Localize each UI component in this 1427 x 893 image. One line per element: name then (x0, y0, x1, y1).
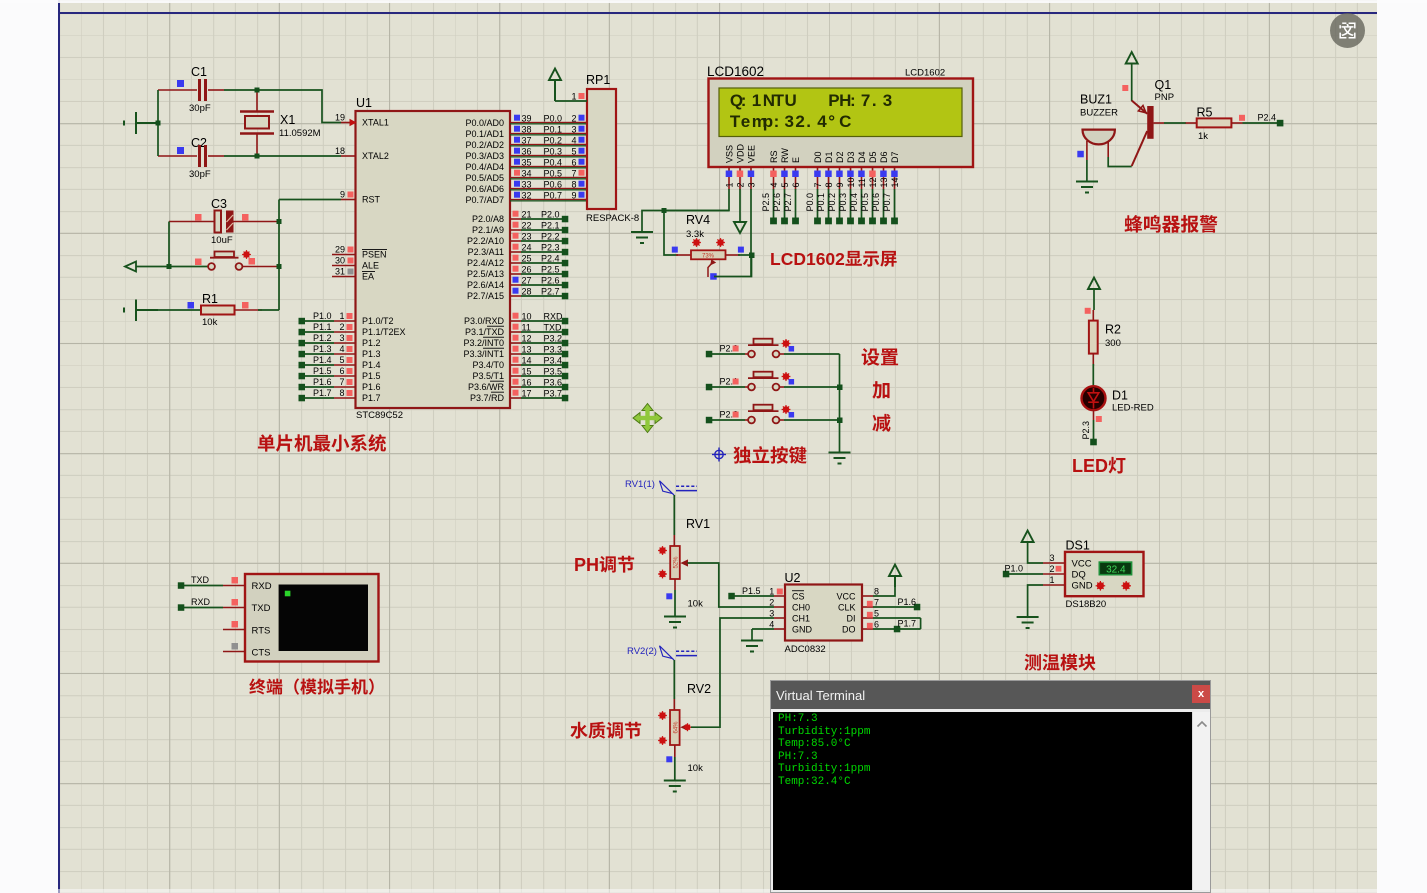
svg-text:D1: D1 (824, 151, 834, 163)
node X1 bottom junction (255, 154, 260, 159)
buzzer BUZ1 (1077, 93, 1118, 161)
svg-text:P0.2/AD2: P0.2/AD2 (465, 140, 504, 150)
svg-text:GND: GND (1072, 581, 1093, 592)
svg-text:10k: 10k (202, 317, 218, 328)
svg-text:P2.5: P2.5 (761, 193, 771, 212)
net P3.5 wire (510, 367, 568, 380)
svg-text:RV4: RV4 (686, 213, 710, 227)
svg-text:D5: D5 (868, 151, 878, 163)
svg-text:RV1(1): RV1(1) (625, 479, 655, 490)
svg-text:P3.7/RD: P3.7/RD (470, 393, 505, 403)
ground (R1) (124, 300, 158, 322)
power terminal (DS1) (1022, 531, 1034, 543)
svg-text:D2: D2 (835, 151, 845, 163)
svg-text:VCC: VCC (1072, 559, 1092, 570)
wire D1 to terminal P2.3 (1081, 420, 1097, 445)
svg-text:P0.2: P0.2 (544, 136, 563, 146)
svg-text:34: 34 (522, 169, 532, 179)
svg-text:Temp:32.4°C: Temp:32.4°C (730, 112, 851, 131)
LCD pin 11 D4 (849, 167, 867, 224)
phone pin CTS stub (223, 643, 245, 652)
svg-text:P1.7: P1.7 (313, 388, 332, 398)
U1 pin 18 XTAL2 (335, 146, 356, 156)
svg-text:CLK: CLK (838, 602, 856, 612)
svg-text:P0.4/AD4: P0.4/AD4 (465, 162, 504, 172)
power terminal (RP1) (549, 69, 561, 102)
IC U1 STC89C52 body (356, 96, 511, 421)
push button (reset) (195, 250, 279, 270)
svg-text:DQ: DQ (1072, 570, 1086, 581)
svg-text:D1: D1 (1112, 389, 1128, 403)
svg-text:P2.7: P2.7 (783, 193, 793, 212)
net P0.1 wire U1-RP1 (510, 125, 587, 135)
svg-text:P2.3: P2.3 (1081, 421, 1091, 440)
svg-text:D4: D4 (857, 151, 867, 163)
svg-text:33: 33 (522, 180, 532, 190)
svg-text:52%: 52% (674, 556, 680, 569)
svg-text:DS1: DS1 (1066, 539, 1090, 553)
svg-text:P2.6: P2.6 (772, 193, 782, 212)
potentiometer RV2 10k (658, 682, 711, 774)
LCD pin 4 RS (761, 167, 779, 224)
svg-text:P1.0/T2: P1.0/T2 (362, 316, 394, 326)
svg-text:LCD1602: LCD1602 (770, 249, 845, 269)
svg-text:P2.7: P2.7 (541, 287, 560, 297)
svg-text:14: 14 (890, 177, 900, 187)
svg-text:R2: R2 (1105, 323, 1121, 337)
node button-right junction (277, 264, 282, 269)
LCD pin 10 D3 (838, 167, 856, 224)
LCD pin 5 RW (772, 167, 790, 224)
LCD pin 6 E (783, 167, 801, 224)
svg-text:CH1: CH1 (792, 613, 810, 623)
U1 pin 9 RST (340, 190, 356, 200)
svg-text:RXD: RXD (191, 597, 211, 607)
svg-text:P2.1/A9: P2.1/A9 (472, 225, 504, 235)
wire buzzer right to Q1 collector (1108, 157, 1132, 167)
wire C3 left drop (168, 222, 170, 267)
ground (U2) (741, 641, 763, 652)
svg-text:BUZ1: BUZ1 (1080, 93, 1112, 107)
phone pin RXD wire TXD (178, 575, 245, 589)
svg-text:3.3k: 3.3k (686, 229, 704, 240)
svg-text:1: 1 (724, 182, 734, 187)
ground (crystal) (124, 112, 158, 134)
svg-text:7: 7 (571, 169, 576, 179)
U1 pin 6 P1.5 wire (299, 366, 356, 380)
node bus junction 1 (837, 385, 843, 391)
svg-text:RV2(2): RV2(2) (627, 646, 657, 657)
LCD LCD1 LCD1602 body (707, 64, 973, 167)
svg-text:Q1: Q1 (1155, 78, 1172, 92)
svg-text:RESPACK-8: RESPACK-8 (586, 213, 639, 224)
LCD pin 3 VEE (746, 167, 756, 277)
U1 pin 3 P1.2 wire (299, 333, 356, 347)
svg-text:3: 3 (339, 333, 344, 343)
svg-text:30pF: 30pF (189, 103, 211, 114)
svg-text:P1.1/T2EX: P1.1/T2EX (362, 327, 406, 337)
svg-text:P1.6: P1.6 (898, 597, 917, 607)
svg-text:P0.1/AD1: P0.1/AD1 (465, 129, 504, 139)
label 独立按键 (733, 446, 806, 464)
pan cursor icon (633, 404, 662, 433)
svg-text:TXD: TXD (544, 323, 563, 333)
svg-text:P0.0/AD0: P0.0/AD0 (465, 118, 504, 128)
svg-text:16: 16 (522, 378, 532, 388)
label 设置 (862, 348, 898, 366)
svg-text:8: 8 (339, 388, 344, 398)
svg-text:U1: U1 (356, 96, 372, 110)
svg-text:5: 5 (780, 182, 790, 187)
svg-text:9: 9 (571, 191, 576, 201)
svg-text:21: 21 (522, 210, 532, 220)
svg-text:R5: R5 (1197, 106, 1213, 120)
svg-text:VDD: VDD (735, 143, 745, 163)
svg-text:P3.0/RXD: P3.0/RXD (464, 316, 505, 326)
RV4 wiper wire (714, 255, 752, 277)
svg-text:P0.3: P0.3 (544, 147, 563, 157)
net P0.2 wire U1-RP1 (510, 136, 587, 146)
svg-text:P0.6: P0.6 (871, 193, 881, 212)
marker origin (blue target) (712, 448, 726, 462)
DS1 pin 2 DQ wire P1.0 (1003, 564, 1065, 578)
svg-text:P0.7: P0.7 (882, 193, 892, 212)
svg-text:14: 14 (522, 356, 532, 366)
svg-text:P0.0: P0.0 (805, 193, 815, 212)
svg-text:3: 3 (1049, 553, 1054, 563)
IC U2 ADC0832 body (785, 571, 863, 655)
svg-text:11: 11 (857, 178, 867, 187)
U2 pin 6 DO wire P1.7 (862, 618, 921, 632)
svg-text:P1.7: P1.7 (362, 393, 381, 403)
wire RV2 bottom to ground (674, 757, 676, 780)
svg-text:LED-RED: LED-RED (1112, 403, 1154, 414)
svg-text:32: 32 (522, 191, 532, 201)
window Virtual Terminal (770, 680, 1211, 893)
svg-text:P3.6: P3.6 (544, 378, 563, 388)
DS1 pin 3 VCC wire (1028, 542, 1065, 563)
svg-text:3: 3 (746, 182, 756, 187)
svg-text:P3.7: P3.7 (544, 389, 563, 399)
svg-text:P0.5/AD5: P0.5/AD5 (465, 173, 504, 183)
svg-text:P2.6/A14: P2.6/A14 (467, 280, 504, 290)
svg-text:1: 1 (571, 92, 576, 102)
svg-text:30: 30 (335, 256, 345, 266)
svg-text:P0.5: P0.5 (544, 169, 563, 179)
U2 pin 7 CLK wire P1.6 (862, 597, 920, 610)
svg-text:15: 15 (522, 367, 532, 377)
svg-text:2: 2 (1049, 564, 1054, 574)
svg-text:TXD: TXD (191, 575, 210, 585)
svg-text:7: 7 (874, 598, 879, 608)
svg-text:64%: 64% (673, 721, 679, 734)
resistor pack RP1 RESPACK-8 (586, 73, 639, 224)
net P0.4 wire U1-RP1 (510, 158, 587, 168)
power terminal (buzzer) (1122, 52, 1137, 101)
U1 pin 4 P1.3 wire (299, 344, 356, 358)
svg-text:P0.2: P0.2 (827, 193, 837, 212)
DS1 pin 1 GND wire (1028, 575, 1065, 617)
svg-text:39: 39 (522, 114, 532, 124)
svg-text:P2.4/A12: P2.4/A12 (467, 258, 504, 268)
node VSS junction (662, 208, 667, 213)
net P0.6 wire U1-RP1 (510, 180, 587, 190)
svg-text:P1.5: P1.5 (742, 586, 761, 596)
capacitor C2 (158, 136, 224, 180)
svg-text:VEE: VEE (746, 145, 756, 163)
U2 pin 1 CS wire P1.5 (728, 586, 785, 599)
label 测温模块 (1025, 654, 1096, 671)
svg-text:P2.4: P2.4 (1258, 113, 1277, 123)
svg-text:P2.7/A15: P2.7/A15 (467, 291, 504, 301)
net P0.7 wire U1-RP1 (510, 191, 587, 201)
svg-text:10: 10 (522, 312, 532, 322)
wire RV1 wiper to U2 CH0 (688, 563, 775, 607)
svg-text:P0.6/AD6: P0.6/AD6 (465, 184, 504, 194)
phone pin TXD wire RXD (178, 597, 245, 611)
svg-text:D3: D3 (846, 151, 856, 163)
ground (buzzer) (1076, 182, 1098, 193)
svg-text:PNP: PNP (1155, 92, 1175, 103)
net P3.3 wire (510, 345, 568, 358)
LCD pin 12 D5 (860, 167, 878, 224)
svg-text:1: 1 (1049, 575, 1054, 585)
svg-text:1: 1 (339, 311, 344, 321)
U2 pin 4 GND (752, 620, 785, 640)
LED D1 LED-RED (1082, 386, 1154, 422)
svg-text:RTS: RTS (252, 626, 271, 637)
svg-text:XTAL2: XTAL2 (362, 151, 389, 161)
net P3.2 wire (510, 334, 568, 347)
svg-text:P2.5: P2.5 (541, 265, 560, 275)
wire buzzer left to ground (1086, 160, 1088, 181)
svg-text:1: 1 (769, 587, 774, 597)
svg-text:300: 300 (1105, 338, 1121, 349)
terminal arrow left (reset row) (125, 262, 208, 272)
svg-text:P2.3: P2.3 (541, 243, 560, 253)
svg-text:P0.7/AD7: P0.7/AD7 (465, 195, 504, 205)
node crystal-left junction (156, 121, 161, 126)
ground (DS1) (1017, 617, 1039, 628)
svg-text:STC89C52: STC89C52 (356, 410, 403, 421)
wire R2 to D1 (1092, 364, 1094, 387)
wire probe to RV1 (673, 495, 675, 535)
svg-text:7: 7 (813, 182, 823, 187)
ground (buttons) (829, 453, 851, 464)
svg-text:VCC: VCC (836, 591, 856, 601)
U1 pin 1 P1.0 wire (299, 311, 356, 325)
svg-text:P0.3/AD3: P0.3/AD3 (465, 151, 504, 161)
svg-text:CH0: CH0 (792, 602, 810, 612)
net P0.0 wire U1-RP1 (510, 114, 587, 124)
svg-text:P1.3: P1.3 (362, 349, 381, 359)
svg-text:P2.2/A10: P2.2/A10 (467, 236, 504, 246)
LCD pin 13 D6 (871, 167, 889, 224)
svg-text:LCD1602: LCD1602 (707, 64, 764, 79)
label 减 (872, 414, 890, 432)
svg-text:8: 8 (874, 587, 879, 597)
svg-text:29: 29 (335, 245, 345, 255)
label 终端（模拟手机） (249, 678, 373, 694)
svg-text:P3.5: P3.5 (544, 367, 563, 377)
svg-text:P2.0: P2.0 (541, 210, 560, 220)
node X1 top junction (255, 88, 260, 93)
net P2.4 wire (510, 254, 568, 267)
svg-text:P1.4: P1.4 (362, 360, 381, 370)
svg-text:2: 2 (339, 322, 344, 332)
svg-text:D0: D0 (813, 151, 823, 163)
wire VSS rail to ground (642, 211, 729, 233)
svg-text:28: 28 (522, 287, 532, 297)
wire junction to RV4 left (664, 211, 678, 256)
label PH调节 (574, 555, 634, 575)
svg-text:24: 24 (522, 243, 532, 253)
svg-text:12: 12 (868, 177, 878, 187)
svg-text:4: 4 (769, 182, 779, 187)
net P2.6 wire (510, 276, 568, 289)
svg-text:D7: D7 (890, 151, 900, 163)
phone pin RTS stub (223, 621, 245, 630)
U2 pin 5 DI wire (862, 609, 921, 619)
svg-text:5: 5 (874, 609, 879, 619)
LCD pin 2 VDD (734, 167, 746, 233)
svg-text:P0.3: P0.3 (838, 193, 848, 212)
U1 pin 31 (332, 267, 356, 277)
net P2.5 wire (510, 265, 568, 278)
svg-text:73%: 73% (702, 253, 715, 259)
svg-text:EA: EA (362, 272, 374, 282)
svg-text:P2.4: P2.4 (541, 254, 560, 264)
svg-text:38: 38 (522, 125, 532, 135)
LCD pin 8 D1 (816, 167, 834, 224)
svg-text:P3.4/T0: P3.4/T0 (472, 360, 504, 370)
svg-text:P1.2: P1.2 (313, 333, 332, 343)
label LCD1602显示屏 (770, 249, 897, 269)
svg-text:6: 6 (571, 158, 576, 168)
svg-text:RST: RST (362, 195, 381, 205)
probe RV2(2) (627, 646, 697, 661)
floating translate button (1330, 13, 1365, 48)
svg-text:C1: C1 (191, 65, 207, 79)
svg-text:8: 8 (571, 180, 576, 190)
push button P2.1 (706, 372, 840, 391)
net P2.3 wire (510, 243, 568, 256)
ground (RV1) (664, 617, 686, 628)
svg-text:18: 18 (335, 146, 345, 156)
label 水质调节 (570, 722, 641, 739)
svg-text:TXD: TXD (252, 603, 271, 614)
svg-text:P3.4: P3.4 (544, 356, 563, 366)
node RV4/VEE junction (749, 253, 755, 259)
svg-text:3: 3 (769, 609, 774, 619)
svg-text:10k: 10k (688, 599, 704, 610)
svg-text:P3.5/T1: P3.5/T1 (472, 371, 504, 381)
RP1 pin 1 wire (555, 92, 587, 102)
svg-text:P0.0: P0.0 (544, 114, 563, 124)
svg-text:R1: R1 (202, 292, 218, 306)
label 蜂鸣器报警 (1125, 215, 1218, 233)
svg-text:8: 8 (824, 182, 834, 187)
resistor R5 1k (1186, 106, 1243, 143)
svg-text:P1.6: P1.6 (362, 382, 381, 392)
node button-left junction (167, 264, 172, 269)
U1 pin 30 (332, 256, 356, 266)
svg-text:P0.6: P0.6 (544, 180, 563, 190)
svg-text:11.0592M: 11.0592M (279, 128, 321, 139)
wire probe to RV2 (673, 660, 675, 699)
U2 pin 2 (769, 598, 785, 608)
svg-text:ADC0832: ADC0832 (785, 644, 826, 655)
push button P2.2 (706, 405, 840, 424)
svg-text:P1.0: P1.0 (1005, 564, 1024, 574)
LCD pin 9 D2 (827, 167, 845, 224)
svg-text:36: 36 (522, 147, 532, 157)
svg-text:7: 7 (339, 377, 344, 387)
svg-text:35: 35 (522, 158, 532, 168)
U1 pin 8 P1.7 wire (299, 388, 356, 402)
svg-text:17: 17 (522, 389, 532, 399)
resistor R2 300 (1085, 308, 1121, 366)
net P3.4 wire (510, 356, 568, 369)
svg-text:31: 31 (335, 267, 345, 277)
svg-text:6: 6 (791, 182, 801, 187)
net P0.3 wire U1-RP1 (510, 147, 587, 157)
svg-text:PSEN: PSEN (362, 250, 387, 260)
svg-text:P0.1: P0.1 (544, 125, 563, 135)
svg-text:P2.3/A11: P2.3/A11 (468, 247, 504, 257)
svg-text:2: 2 (735, 182, 745, 187)
LCD pin 7 D0 (805, 167, 823, 224)
svg-text:P0.7: P0.7 (544, 191, 563, 201)
svg-text:U2: U2 (785, 571, 801, 585)
net P3.6 wire (510, 378, 568, 391)
svg-text:32.4: 32.4 (1106, 565, 1126, 576)
svg-text:RV1: RV1 (686, 517, 710, 531)
svg-text:RXD: RXD (544, 312, 564, 322)
potentiometer RV1 10k (658, 517, 710, 610)
svg-text:9: 9 (835, 182, 845, 187)
svg-text:5: 5 (571, 147, 576, 157)
node C3 right junction (277, 219, 282, 224)
svg-text:P1.2: P1.2 (362, 338, 381, 348)
svg-text:10: 10 (846, 177, 856, 187)
svg-text:DS18B20: DS18B20 (1066, 599, 1107, 610)
svg-text:P0.5: P0.5 (860, 193, 870, 212)
svg-text:CTS: CTS (252, 648, 271, 659)
svg-text:RW: RW (780, 148, 790, 163)
net P0.5 wire U1-RP1 (510, 169, 587, 179)
capacitor C1 (158, 65, 224, 114)
svg-text:XTAL1: XTAL1 (362, 118, 389, 128)
svg-text:9: 9 (340, 190, 345, 200)
svg-text:19: 19 (335, 113, 345, 123)
svg-text:GND: GND (792, 624, 813, 634)
label 单片机最小系统 (258, 434, 386, 452)
svg-text:P0.4: P0.4 (849, 193, 859, 212)
svg-text:4: 4 (571, 136, 576, 146)
svg-text:P3.2/INT0: P3.2/INT0 (463, 338, 504, 348)
wire RST to U1 (279, 199, 341, 201)
svg-text:27: 27 (522, 276, 532, 286)
virtual terminal (phone) body (245, 574, 379, 662)
net TXD wire (510, 323, 568, 336)
node bus junction 2 (837, 418, 843, 424)
svg-text:P1.7: P1.7 (898, 619, 917, 629)
svg-text:P1.4: P1.4 (313, 355, 332, 365)
svg-text:P2.2: P2.2 (541, 232, 560, 242)
svg-text:13: 13 (522, 345, 532, 355)
svg-text:P1.0: P1.0 (313, 311, 332, 321)
